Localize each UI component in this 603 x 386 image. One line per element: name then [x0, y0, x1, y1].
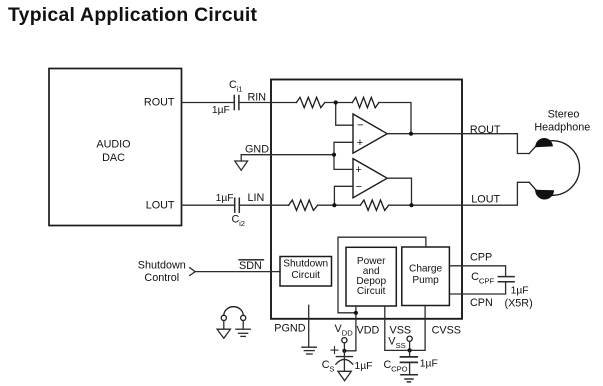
svg-text:i1: i1	[237, 85, 243, 94]
wire CPN	[449, 282, 505, 294]
node dot LOUT output	[409, 203, 413, 207]
plus sign CS	[331, 347, 338, 354]
svg-text:Control: Control	[144, 272, 179, 284]
node dot VSS/CCPO junction	[408, 348, 412, 352]
headphone contact top	[535, 138, 553, 147]
wire loop power to charge pump	[338, 237, 426, 313]
svg-text:SS: SS	[396, 341, 406, 350]
resistor R input right (RIN)	[296, 97, 324, 107]
svg-text:CPP: CPP	[470, 252, 492, 264]
node dot LIN junction	[332, 203, 336, 207]
ground tie symbol arc	[224, 307, 243, 316]
ground tie right circle	[241, 315, 246, 320]
AUDIO DAC box	[49, 69, 182, 226]
resistor R input left (LIN)	[289, 200, 318, 210]
svg-text:RIN: RIN	[248, 92, 267, 104]
capacitor CS polarized	[343, 351, 345, 372]
wire tie right stub	[242, 321, 244, 329]
svg-text:1µF: 1µF	[355, 361, 373, 372]
svg-text:CVSS: CVSS	[432, 325, 461, 337]
svg-text:+: +	[357, 137, 363, 149]
wire minus input top op-amp	[336, 103, 353, 126]
svg-text:Shutdown: Shutdown	[138, 260, 186, 272]
wire GND input	[241, 154, 334, 156]
capacitor C_i1	[234, 96, 239, 110]
terminal VSS circle	[407, 336, 412, 341]
power and depop circuit box	[346, 247, 396, 306]
node dot ROUT output	[409, 132, 413, 136]
svg-text:CPF: CPF	[479, 277, 495, 286]
svg-text:GND: GND	[245, 143, 269, 155]
node dot VDD/CS junction	[342, 349, 346, 353]
svg-text:Shutdown: Shutdown	[283, 259, 328, 270]
wire VDD terminal stub	[343, 343, 345, 351]
capacitor C_i2	[235, 198, 240, 212]
capacitor CCPO	[409, 350, 411, 357]
svg-text:DAC: DAC	[102, 152, 125, 164]
resistor R feedback left	[360, 200, 388, 210]
wire LOUT to jack	[389, 182, 530, 205]
headphone jack outline	[529, 141, 579, 196]
wire VSS terminal stub	[409, 341, 411, 350]
svg-text:1µF: 1µF	[420, 359, 438, 370]
IC main box U1	[271, 80, 462, 319]
svg-text:−: −	[357, 120, 363, 132]
svg-text:LOUT: LOUT	[471, 194, 500, 206]
wire minus input bottom op-amp	[334, 186, 353, 205]
wire resistor to node	[318, 204, 361, 206]
wire ROUT output	[387, 134, 529, 154]
ground tie earth	[236, 329, 250, 336]
ground CS signal triangle	[338, 371, 351, 381]
svg-text:PGND: PGND	[274, 323, 305, 335]
svg-text:DD: DD	[342, 329, 353, 338]
svg-text:Circuit: Circuit	[291, 270, 320, 281]
wire resistor to node	[325, 102, 353, 104]
svg-text:CPO: CPO	[391, 365, 408, 374]
wire CPP	[449, 266, 505, 277]
svg-text:Stereo: Stereo	[548, 109, 580, 121]
wire tie left stub	[223, 321, 225, 329]
wire SDN	[195, 271, 280, 273]
svg-text:−: −	[356, 181, 362, 193]
SDN overline	[239, 259, 264, 261]
headphone contact bottom	[535, 190, 554, 200]
svg-text:1µF: 1µF	[216, 193, 234, 204]
ground (GND signal)	[235, 155, 248, 171]
svg-text:SDN: SDN	[239, 260, 262, 272]
svg-text:+: +	[355, 164, 361, 176]
capacitor CCPF	[498, 277, 514, 282]
wire LOUT output	[387, 178, 411, 205]
svg-text:ROUT: ROUT	[144, 97, 175, 109]
ground CCPO earth	[401, 375, 417, 382]
node dot GND junction	[332, 153, 336, 157]
svg-text:Typical Application Circuit: Typical Application Circuit	[8, 4, 258, 26]
wire ROUT from DAC to C_i1	[182, 102, 235, 104]
wire C_i1 to RIN resistor	[239, 102, 297, 104]
terminal VDD circle	[342, 338, 347, 343]
svg-text:Circuit: Circuit	[357, 286, 386, 297]
svg-text:LOUT: LOUT	[146, 199, 175, 211]
svg-text:1µF: 1µF	[511, 285, 529, 296]
svg-text:Charge: Charge	[409, 263, 442, 274]
svg-text:(X5R): (X5R)	[505, 298, 533, 310]
svg-text:ROUT: ROUT	[470, 124, 501, 136]
ground PGND earth	[302, 347, 317, 354]
svg-text:C: C	[471, 271, 479, 283]
shutdown control chevron	[190, 268, 196, 276]
wire C_i2 to LIN resistor	[239, 204, 288, 206]
node dot VDD loop junction	[354, 311, 358, 315]
shutdown circuit box	[280, 257, 332, 287]
charge pump box	[402, 247, 450, 306]
svg-text:Pump: Pump	[412, 275, 439, 286]
op-amp U1A	[353, 114, 387, 153]
wire CVSS pin	[410, 306, 426, 351]
ground tie signal triangle	[217, 329, 230, 338]
wire plus input top op-amp	[334, 142, 353, 169]
resistor R feedback right	[352, 97, 379, 107]
svg-text:AUDIO: AUDIO	[96, 139, 130, 151]
wire VSS pin	[385, 306, 410, 350]
wire PGND pin	[308, 305, 310, 346]
svg-text:i2: i2	[239, 219, 245, 228]
svg-text:LIN: LIN	[248, 192, 265, 204]
wire VDD pin	[344, 306, 356, 351]
svg-text:S: S	[329, 364, 334, 373]
node dot RIN junction	[334, 100, 338, 104]
svg-text:1µF: 1µF	[212, 105, 230, 116]
wire feedback to output node	[379, 103, 411, 134]
ground tie left circle	[221, 315, 226, 320]
svg-text:VDD: VDD	[357, 325, 380, 337]
wire LOUT from DAC to C_i2	[182, 204, 235, 206]
op-amp U1B	[353, 159, 387, 198]
svg-text:CPN: CPN	[470, 297, 493, 309]
svg-text:Headphone: Headphone	[534, 122, 590, 134]
